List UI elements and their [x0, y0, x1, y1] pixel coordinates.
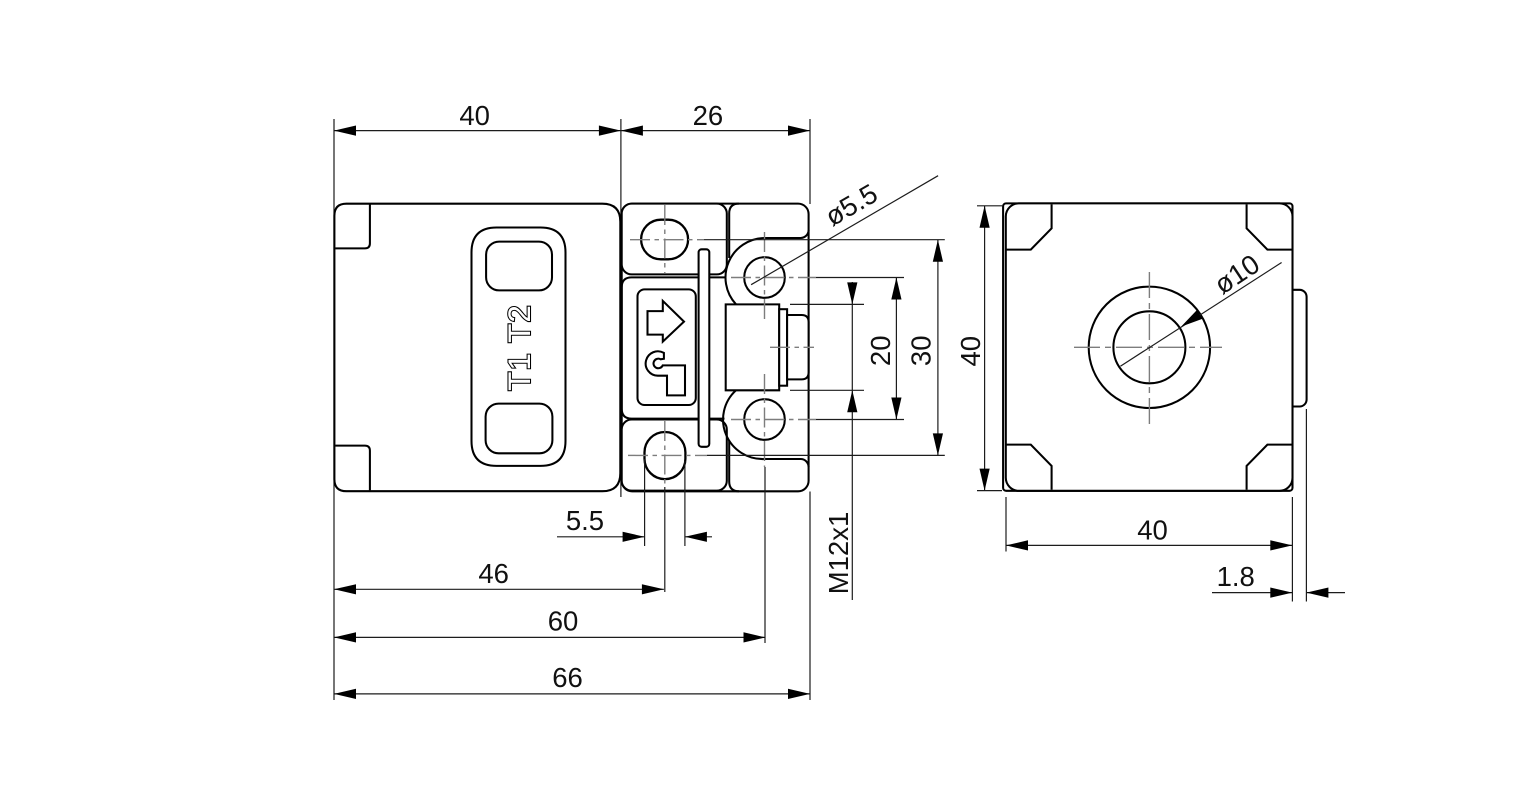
extension line right (x=810)	[809, 119, 811, 204]
mid-left block	[622, 277, 725, 418]
extension 30-dim top	[704, 239, 945, 241]
extension 30-dim bottom	[707, 454, 945, 456]
dim 26 top	[621, 130, 810, 132]
dim 40 vertical right view	[984, 206, 986, 491]
dim 1.8	[1212, 592, 1292, 594]
leader o5.5	[751, 176, 938, 285]
upper-right lobe left edge	[729, 204, 739, 258]
dim M12x1	[851, 282, 853, 600]
lower-left plate	[622, 420, 727, 491]
M12 plug block	[726, 304, 780, 390]
label plate	[472, 228, 566, 466]
extension M12 bottom	[790, 389, 864, 391]
centerline top slot horizontal	[630, 239, 704, 241]
lower-right lobe left edge	[729, 441, 739, 491]
leader o10	[1120, 263, 1281, 367]
arrow icon	[648, 301, 685, 342]
dim 30 vertical	[937, 240, 939, 456]
centerline vertical	[1148, 272, 1150, 424]
bottom bolt hole	[744, 399, 785, 440]
outer circle	[1089, 287, 1210, 408]
pictogram plate	[638, 289, 696, 405]
upper-right lobe bottom edge	[763, 230, 809, 238]
svg-text:T1 T2: T1 T2	[501, 304, 537, 391]
svg-text:40: 40	[1137, 515, 1168, 546]
svg-text:40: 40	[955, 336, 986, 367]
dim 46	[334, 588, 664, 590]
dim 60	[334, 636, 766, 638]
svg-text:46: 46	[478, 558, 509, 589]
back plate	[1003, 203, 1292, 490]
svg-text:40: 40	[459, 100, 490, 131]
boss arc bottom bolt	[723, 390, 764, 459]
top bolt hole	[744, 257, 785, 298]
extension 40v bottom	[977, 490, 1002, 492]
extension line left (x=334)	[333, 119, 335, 700]
extension 40h left	[1005, 497, 1007, 552]
M12 plug sleeve	[779, 309, 787, 386]
side tab 1.8 plate	[1282, 290, 1307, 407]
boss arc top bolt	[726, 238, 765, 304]
centerline top slot vertical	[664, 205, 666, 273]
corner chamfer bottom-left	[1006, 445, 1051, 490]
svg-text:30: 30	[906, 336, 937, 367]
centerline bottom bolt horizontal	[731, 419, 816, 421]
head outer body	[622, 204, 809, 492]
corner chamfer top-left	[1006, 204, 1051, 249]
extension M12 top	[790, 303, 864, 305]
label plate upper square	[486, 242, 552, 291]
centerline bottom bolt vertical	[764, 374, 766, 467]
extension 1.8 right	[1305, 409, 1307, 602]
svg-text:60: 60	[548, 606, 579, 637]
extension 40h right	[1291, 497, 1293, 602]
extension 5.5 left	[644, 459, 646, 546]
dim 40 horizontal right view	[1006, 544, 1292, 546]
dim 20 vertical	[895, 278, 897, 420]
svg-text:5.5: 5.5	[566, 505, 604, 536]
key icon (release symbol)	[646, 351, 685, 395]
M12 plug cap	[787, 315, 809, 379]
centerline plug	[770, 346, 814, 348]
svg-text:66: 66	[552, 662, 583, 693]
corner tab top-left	[335, 205, 370, 249]
inner circle o10	[1113, 311, 1185, 383]
extension 5.5 right	[684, 461, 686, 546]
corner chamfer top-right	[1247, 204, 1292, 249]
label plate lower square	[486, 404, 553, 454]
centerline bottom slot vertical	[664, 421, 666, 487]
svg-text:M12x1: M12x1	[823, 512, 854, 595]
svg-text:26: 26	[693, 100, 724, 131]
centerline horizontal	[1074, 346, 1222, 348]
corner tab bottom-left	[335, 446, 370, 491]
corner chamfer bottom-right	[1247, 445, 1292, 490]
centerline top bolt vertical	[764, 232, 766, 323]
svg-text:20: 20	[865, 336, 896, 367]
dim 40 top	[334, 130, 621, 132]
svg-text:1.8: 1.8	[1217, 561, 1255, 592]
bottom mounting slot	[645, 432, 686, 479]
extension 20-dim top	[816, 277, 904, 279]
front face	[1006, 203, 1293, 490]
extension 40v top	[977, 205, 1002, 207]
extension 60-dim bolt center	[764, 467, 766, 643]
centerline top bolt horizontal	[731, 277, 816, 279]
extension line middle (x=620.9)	[620, 119, 622, 497]
upper-left plate	[622, 204, 727, 275]
extension 20-dim bottom	[816, 419, 904, 421]
separator bar	[699, 249, 710, 446]
top mounting slot	[641, 220, 688, 260]
centerline bottom slot horizontal	[628, 454, 707, 456]
dim 66	[334, 693, 810, 695]
dim 5.5	[557, 536, 645, 538]
sensor body (left block) outline	[334, 204, 620, 492]
lower-right lobe top edge	[763, 459, 809, 467]
